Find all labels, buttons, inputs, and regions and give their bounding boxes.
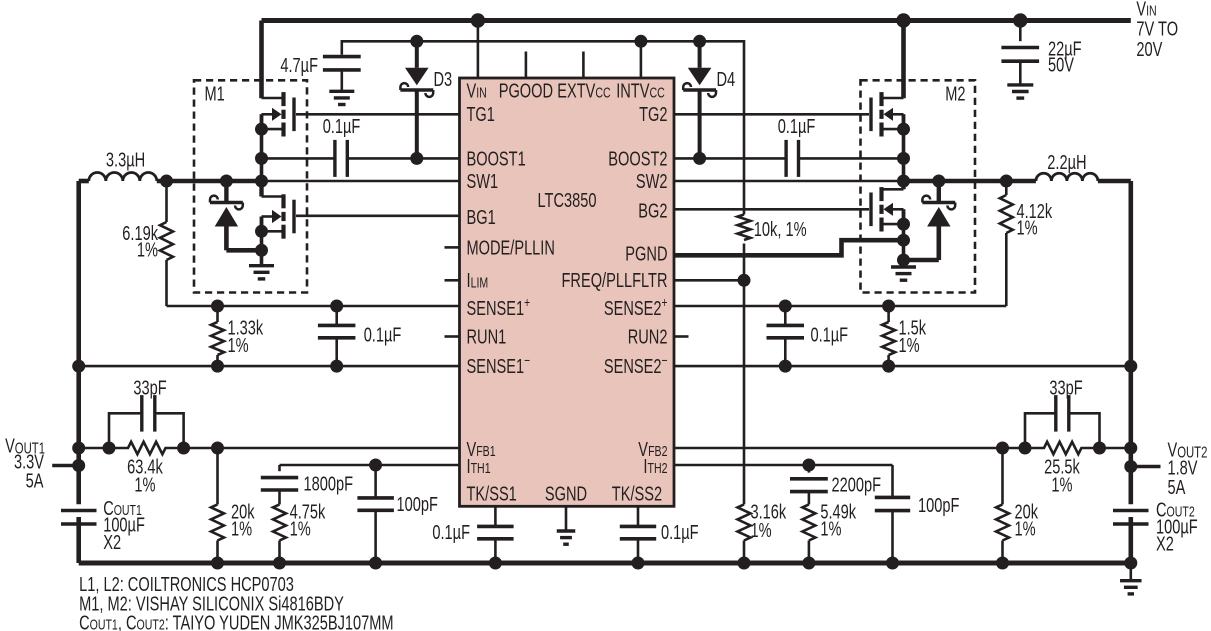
svg-text:, C: , C xyxy=(118,612,137,631)
svg-text:M1: M1 xyxy=(205,83,225,105)
capacitor 100pF ch2 xyxy=(875,465,960,563)
ground SGND pin xyxy=(557,506,576,544)
wire VOUT1 terminal xyxy=(5,435,79,492)
node SENSE2- rail junction xyxy=(1124,360,1137,373)
svg-text:LIM: LIM xyxy=(471,275,489,291)
svg-text:1%: 1% xyxy=(751,520,772,542)
node 20k top ch2 xyxy=(996,442,1009,455)
svg-text:0.1µF: 0.1µF xyxy=(432,522,470,544)
capacitor 0.1uF BOOST2 xyxy=(674,116,904,177)
svg-text:SENSE1: SENSE1 xyxy=(467,298,525,320)
svg-text:0.1µF: 0.1µF xyxy=(778,116,816,138)
svg-text:1%: 1% xyxy=(228,335,249,357)
node M1 diode anode junction xyxy=(255,244,268,257)
diode D3 xyxy=(400,41,452,158)
wire VIN top rail xyxy=(262,18,1131,23)
wire BG1 xyxy=(296,215,460,218)
resistor 4.12k 1% xyxy=(1000,181,1053,306)
svg-text:1%: 1% xyxy=(290,518,311,540)
wire FREQ/PLLFLTR xyxy=(674,279,744,282)
capacitor 33pF ch1 xyxy=(109,377,184,448)
svg-text:TK/SS2: TK/SS2 xyxy=(612,483,662,505)
wire VOUT2 terminal xyxy=(1131,439,1208,499)
node M2 diode anode junction xyxy=(897,254,910,267)
node D4 BOOST2 junction xyxy=(693,152,706,165)
svg-text:−: − xyxy=(662,352,668,368)
svg-text:3.3µH: 3.3µH xyxy=(106,149,145,171)
node gnd rail 5.49k xyxy=(802,557,815,570)
wire M1 drain drop xyxy=(259,21,264,99)
node 1.33k bottom xyxy=(211,360,224,373)
capacitor 0.1uF SENSE1 xyxy=(318,306,401,366)
capacitor 0.1uF TKSS1 xyxy=(432,506,513,563)
wire VOUT2 rail xyxy=(1129,181,1134,563)
node SENSE1 cap top xyxy=(330,300,343,313)
wire RUN2 stub xyxy=(674,335,689,338)
svg-text:1%: 1% xyxy=(1015,518,1036,540)
svg-text:2200pF: 2200pF xyxy=(832,474,882,496)
svg-text:FB2: FB2 xyxy=(648,444,667,460)
node 1.33k top xyxy=(211,300,224,313)
resistor 63.4k 1% xyxy=(109,442,184,497)
node gnd rail VOUT2 rail xyxy=(1124,557,1137,570)
node gnd rail 20k ch1 xyxy=(211,557,224,570)
svg-text:IN: IN xyxy=(1146,4,1157,20)
svg-text:−: − xyxy=(524,352,530,368)
svg-text:1%: 1% xyxy=(231,518,252,540)
schottky diode D2 xyxy=(922,181,955,260)
svg-text:2.2µH: 2.2µH xyxy=(1047,152,1086,174)
node D4 top junction xyxy=(693,35,706,48)
svg-text:1%: 1% xyxy=(899,335,920,357)
node gnd rail TKSS1 cap xyxy=(489,557,502,570)
transistor M2 bottom NMOS xyxy=(871,181,904,267)
svg-text:SW2: SW2 xyxy=(636,171,668,193)
wire ILIM stub xyxy=(445,279,460,282)
node CIN junction xyxy=(1013,13,1027,27)
node M2 top source xyxy=(897,123,910,136)
wire TG2 xyxy=(674,113,869,116)
node VOUT1 stub junction xyxy=(72,459,85,472)
svg-text:1800pF: 1800pF xyxy=(304,473,354,495)
svg-text:CC: CC xyxy=(650,86,665,102)
svg-text:IN: IN xyxy=(476,86,487,102)
svg-text:50V: 50V xyxy=(1048,55,1074,77)
svg-text:X2: X2 xyxy=(103,532,121,554)
svg-text:SGND: SGND xyxy=(545,483,587,505)
svg-text:TG2: TG2 xyxy=(639,104,667,126)
wire INTVCC rail xyxy=(342,41,744,214)
capacitor 0.1uF SENSE2 xyxy=(767,306,849,366)
svg-text:100pF: 100pF xyxy=(397,494,438,516)
wire MODE/PLLIN stub xyxy=(445,246,460,249)
svg-text:TH2: TH2 xyxy=(648,461,668,477)
svg-text:V: V xyxy=(467,80,477,102)
svg-text:MODE/PLLIN: MODE/PLLIN xyxy=(467,237,555,259)
resistor 20k 1% ch1 xyxy=(211,448,255,563)
svg-text:1%: 1% xyxy=(134,474,155,496)
node M2 bottom source xyxy=(897,218,910,231)
wire PGND trace xyxy=(674,240,904,255)
svg-text:1%: 1% xyxy=(1051,474,1072,496)
svg-text:0.1µF: 0.1µF xyxy=(364,325,402,347)
svg-text:LTC3850: LTC3850 xyxy=(538,190,597,212)
svg-text:M2: M2 xyxy=(945,83,965,105)
capacitor 33pF ch2 xyxy=(1025,377,1100,448)
node D2 cathode xyxy=(932,175,945,188)
capacitor 0.1uF TKSS2 xyxy=(620,506,699,563)
wire INTVCC pin xyxy=(640,41,643,78)
schottky diode D1 xyxy=(210,181,243,250)
svg-text:PGND: PGND xyxy=(625,244,667,266)
wire SW2 thick xyxy=(904,179,1036,184)
node SENSE2 cap top xyxy=(779,300,792,313)
node gnd rail 100pF ch2 xyxy=(886,557,899,570)
node SENSE1- rail junction xyxy=(72,360,85,373)
svg-text:5A: 5A xyxy=(26,470,44,492)
node 4.12k top xyxy=(1000,175,1013,188)
svg-text:D3: D3 xyxy=(434,69,453,91)
svg-text:V: V xyxy=(1136,0,1146,20)
node M1 BOOST junction xyxy=(255,152,268,165)
resistor 6.19k 1% xyxy=(122,181,173,306)
svg-text:5A: 5A xyxy=(1168,477,1186,499)
resistor 5.49k 1% xyxy=(802,501,856,563)
ground CIN xyxy=(1007,85,1033,98)
wire ground rail xyxy=(79,561,1131,566)
wire TG1 xyxy=(296,113,460,116)
node gnd rail TKSS2 cap xyxy=(632,557,645,570)
node ITH2 2200pF junction xyxy=(802,459,815,472)
wire SW1 to IC xyxy=(262,180,460,183)
resistor 1.5k 1% xyxy=(882,306,927,366)
svg-text:10k, 1%: 10k, 1% xyxy=(754,219,807,241)
node M1 bottom source xyxy=(255,225,268,238)
resistor 20k 1% ch2 xyxy=(996,448,1039,563)
wire EXTVCC stub xyxy=(582,52,585,79)
svg-text:33pF: 33pF xyxy=(1049,377,1082,399)
wire PGOOD stub xyxy=(525,52,528,79)
capacitor COUT2 100uF X2 xyxy=(1113,499,1198,555)
svg-text:BOOST2: BOOST2 xyxy=(608,148,667,170)
svg-text:0.1µF: 0.1µF xyxy=(661,522,699,544)
svg-text:1%: 1% xyxy=(1017,217,1038,239)
diode D4 xyxy=(683,41,735,158)
wire D1 anode link xyxy=(226,248,261,253)
wire VIN pin xyxy=(477,21,480,79)
wire ITH1 xyxy=(280,464,460,467)
svg-text:SENSE2: SENSE2 xyxy=(604,298,662,320)
transistor M1 bottom NMOS xyxy=(262,181,295,266)
svg-text:OUT1: OUT1 xyxy=(90,618,118,631)
svg-text:BOOST1: BOOST1 xyxy=(467,148,526,170)
node gnd rail 100pF ch1 xyxy=(369,557,382,570)
svg-text:+: + xyxy=(662,294,668,310)
svg-text:: TAIYO YUDEN JMK325BJ107MM: : TAIYO YUDEN JMK325BJ107MM xyxy=(165,612,394,631)
svg-text:1%: 1% xyxy=(820,518,841,540)
transistor M2 top NMOS xyxy=(871,92,904,181)
node SENSE2 cap bottom xyxy=(779,360,792,373)
node 1.5k bottom xyxy=(882,360,895,373)
wire SENSE2- xyxy=(674,365,1131,368)
node 25.5k right xyxy=(1093,442,1106,455)
ground M2 source xyxy=(891,267,916,280)
node 25.5k left xyxy=(1019,442,1032,455)
op-amp U1 LTC3850 controller IC xyxy=(460,78,675,506)
node 6.19k top xyxy=(160,175,173,188)
capacitor 100pF ch1 xyxy=(357,465,438,563)
node SENSE1 cap bottom xyxy=(330,360,343,373)
svg-text:BG1: BG1 xyxy=(467,207,496,229)
svg-text:RUN1: RUN1 xyxy=(467,326,507,348)
svg-text:X2: X2 xyxy=(1156,533,1174,555)
svg-text:TG1: TG1 xyxy=(467,104,495,126)
resistor 1.33k 1% xyxy=(211,306,264,366)
node D1 cathode xyxy=(220,175,233,188)
note component table xyxy=(79,574,394,631)
node 63.4k right xyxy=(177,442,190,455)
svg-text:PGOOD: PGOOD xyxy=(499,80,553,102)
wire SENSE1+ xyxy=(167,305,460,308)
node M1 SW junction xyxy=(255,175,268,188)
node M2 BOOST junction xyxy=(897,152,910,165)
wire M2 drain drop xyxy=(901,21,906,99)
svg-text:CC: CC xyxy=(595,86,610,102)
resistor 25.5k 1% xyxy=(1025,442,1100,497)
svg-text:100pF: 100pF xyxy=(918,495,959,517)
svg-text:OUT2: OUT2 xyxy=(137,618,165,631)
svg-text:BG2: BG2 xyxy=(638,201,667,223)
node gnd rail 3.16k xyxy=(738,557,751,570)
node D3 top junction xyxy=(410,35,423,48)
capacitor COUT1 100uF X2 xyxy=(61,498,145,554)
svg-text:0.1µF: 0.1µF xyxy=(811,325,849,347)
node M2 PGND junction xyxy=(897,234,910,247)
node ITH1 100pF junction xyxy=(369,459,382,472)
wire SENSE1- xyxy=(79,365,460,368)
svg-text:C: C xyxy=(79,612,90,631)
wire VFB2 xyxy=(674,447,1131,450)
wire VFB1 xyxy=(79,447,460,450)
wire SW1 thick xyxy=(157,179,262,184)
node gnd rail 4.75k xyxy=(273,557,286,570)
node VIN pin junction xyxy=(471,13,485,27)
node M2 drain junction xyxy=(896,13,910,27)
node INTVCC pin junction xyxy=(634,35,647,48)
net label VIN xyxy=(1136,0,1178,61)
node gnd rail 20k ch2 xyxy=(996,557,1009,570)
svg-text:33pF: 33pF xyxy=(133,377,166,399)
svg-text:TH1: TH1 xyxy=(471,461,491,477)
wire ITH2 xyxy=(674,464,893,467)
svg-text:4.7µF: 4.7µF xyxy=(280,55,318,77)
resistor 4.75k 1% xyxy=(273,501,326,563)
node VFB2 rail junction xyxy=(1124,442,1137,455)
svg-text:20V: 20V xyxy=(1136,39,1162,61)
node VFB1 rail junction xyxy=(72,442,85,455)
svg-text:RUN2: RUN2 xyxy=(628,326,668,348)
wire D2 anode link xyxy=(904,258,939,263)
capacitor 1800pF xyxy=(261,465,353,504)
wire SW2 to IC xyxy=(674,180,904,183)
box M2 VISHAY Si4816BDY xyxy=(861,80,976,292)
inductor L2 2.2uH xyxy=(1036,152,1131,181)
resistor 10k 1% xyxy=(738,215,807,281)
svg-text:D4: D4 xyxy=(717,69,736,91)
wire BG2 xyxy=(674,208,869,211)
svg-text:EXTV: EXTV xyxy=(557,80,596,102)
svg-text:TK/SS1: TK/SS1 xyxy=(467,483,517,505)
node 20k top ch1 xyxy=(211,442,224,455)
wire VOUT1 rail xyxy=(76,181,81,563)
capacitor CIN 22uF 50V xyxy=(1001,21,1081,85)
node M1 top source xyxy=(255,123,268,136)
ground 4.7uF xyxy=(329,91,354,104)
svg-text:1%: 1% xyxy=(137,239,158,261)
capacitor 0.1uF BOOST1 xyxy=(262,116,460,177)
inductor L1 3.3uH xyxy=(79,149,157,181)
node 1.5k top xyxy=(882,300,895,313)
wire RUN1 stub xyxy=(445,335,460,338)
ground main xyxy=(1120,563,1142,594)
svg-text:INTV: INTV xyxy=(616,80,650,102)
ground M1 source xyxy=(249,266,274,279)
node M2 SW junction xyxy=(897,175,910,188)
svg-text:0.1µF: 0.1µF xyxy=(323,116,361,138)
node FREQ junction xyxy=(738,274,751,287)
capacitor 4.7uF INTVCC xyxy=(280,55,360,91)
svg-text:+: + xyxy=(524,294,530,310)
capacitor 2200pF xyxy=(790,465,881,504)
node D3 BOOST1 junction xyxy=(410,152,423,165)
svg-text:SENSE1: SENSE1 xyxy=(467,356,525,378)
resistor 3.16k 1% xyxy=(738,280,787,563)
svg-text:FB1: FB1 xyxy=(476,444,495,460)
svg-text:FREQ/PLLFLTR: FREQ/PLLFLTR xyxy=(562,270,668,292)
node VOUT2 stub junction xyxy=(1124,460,1137,473)
node 63.4k left xyxy=(103,442,116,455)
svg-text:SW1: SW1 xyxy=(467,171,499,193)
svg-text:7V TO: 7V TO xyxy=(1136,18,1178,40)
box M1 VISHAY Si4816BDY xyxy=(194,80,307,292)
wire SENSE2+ xyxy=(674,305,1006,308)
svg-text:SENSE2: SENSE2 xyxy=(604,356,662,378)
transistor M1 top NMOS xyxy=(262,92,295,181)
